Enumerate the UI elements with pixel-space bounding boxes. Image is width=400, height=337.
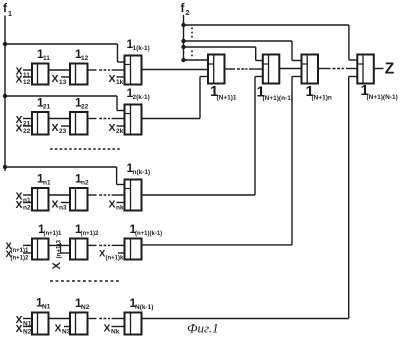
svg-text:2k: 2k xyxy=(116,128,124,135)
wire input X23 xyxy=(61,125,70,127)
svg-text:(N+1)1: (N+1)1 xyxy=(217,95,237,102)
label Xn2 xyxy=(16,199,31,212)
wire 111 to 112 xyxy=(49,69,71,71)
block 1(n+1)(k-1) xyxy=(125,239,142,260)
label block 121 xyxy=(37,96,51,111)
label XN3 xyxy=(55,323,71,336)
svg-text:(N+1)(n-1): (N+1)(n-1) xyxy=(263,95,294,102)
svg-text:2(k-1): 2(k-1) xyxy=(133,94,150,101)
svg-text:nk: nk xyxy=(116,204,124,211)
block 1n1 xyxy=(32,188,49,211)
wire input XNk xyxy=(112,326,125,328)
node f2 tap 1 xyxy=(181,23,185,27)
wire 1(n+1)2 to 1(n+1)(k-1) with ellipsis xyxy=(88,244,125,246)
node f1 row-2 junction xyxy=(3,94,7,98)
label X13 xyxy=(52,73,67,86)
wire f2 to U(N+1)1 xyxy=(184,59,209,61)
label block 11(k-1) xyxy=(127,37,150,52)
svg-text:X: X xyxy=(16,199,23,211)
svg-text:12: 12 xyxy=(23,79,31,86)
svg-text:13: 13 xyxy=(59,79,67,86)
svg-text:1k: 1k xyxy=(116,79,124,86)
wire input X2k xyxy=(117,125,125,127)
svg-text:Z: Z xyxy=(385,61,395,78)
wire input XN3 xyxy=(64,326,70,328)
svg-text:n3: n3 xyxy=(59,204,67,211)
svg-text:X: X xyxy=(52,122,59,134)
wire input X12 xyxy=(23,76,32,78)
label op-block 1(N+1)(n-1) xyxy=(257,84,294,103)
wire 121 to 122 xyxy=(49,118,71,120)
node f1 row-1 junction xyxy=(3,42,7,46)
wire f1 to cell 1n(k-1) xyxy=(5,167,125,185)
label X1k xyxy=(109,73,124,86)
label X(n+1)3 rotated xyxy=(51,240,63,270)
label X22 xyxy=(16,122,31,135)
label block 12(k-1) xyxy=(127,86,150,101)
wire row n+1 output to U(N+1)n xyxy=(142,77,302,245)
svg-text:N2: N2 xyxy=(23,328,32,335)
wire input X22 xyxy=(23,125,32,127)
node f2 tap 2 xyxy=(181,39,185,43)
label XN1 xyxy=(16,314,32,327)
wire f1 vertical bus xyxy=(4,16,6,172)
svg-text:n2: n2 xyxy=(81,180,89,187)
svg-text:21: 21 xyxy=(43,104,51,111)
label block 1(n+1)1 xyxy=(38,222,62,237)
svg-text:(n+1)k: (n+1)k xyxy=(106,255,125,261)
wire 1n2 to 1n(k-1) with ellipsis xyxy=(88,194,125,196)
svg-text:(N+1)(N-1): (N+1)(N-1) xyxy=(367,94,398,101)
svg-text:N(k-1): N(k-1) xyxy=(135,304,153,311)
block 121 xyxy=(32,112,49,135)
label block 1N2 xyxy=(75,296,90,311)
label block 1(n+1)2 xyxy=(75,222,99,237)
label block 1N1 xyxy=(36,296,51,311)
label block 1n(k-1) xyxy=(127,161,151,176)
wire input X11 xyxy=(23,69,32,71)
wire 1N1 to 1N2 xyxy=(49,318,71,320)
ellipsis rows n+1..N xyxy=(50,280,121,282)
wire 1n1 to 1n2 xyxy=(49,194,71,196)
wire input Xn3 xyxy=(61,202,70,204)
wire f2 ellipsis lower xyxy=(191,51,193,59)
label block 1(n+1)(k-1) xyxy=(130,222,163,237)
label XNk xyxy=(104,323,120,336)
node f2 tap 4 xyxy=(181,58,185,62)
wire input XN1 xyxy=(23,318,32,320)
op-block 1(N+1)(n-1) xyxy=(263,55,280,84)
svg-text:N1: N1 xyxy=(42,304,51,311)
wire input X(n+1)1 xyxy=(23,244,32,246)
label X(n+1)1 xyxy=(6,241,30,254)
svg-text:X: X xyxy=(16,73,23,85)
wire input X1k xyxy=(117,76,125,78)
svg-text:X: X xyxy=(52,199,59,211)
op-block 1(N+1)n xyxy=(302,55,319,84)
label Xn3 xyxy=(52,199,67,212)
svg-text:1(k-1): 1(k-1) xyxy=(133,45,150,52)
label Z xyxy=(385,61,395,78)
block 1N1 xyxy=(32,313,49,335)
wire row2 output to U(N+1)1 xyxy=(142,77,209,119)
block 11(k-1) xyxy=(125,56,142,85)
svg-text:(n+1)1: (n+1)1 xyxy=(44,231,63,237)
wire U(N+1)(n-1) to U(N+1)n xyxy=(279,68,301,70)
label block 122 xyxy=(75,96,89,111)
svg-text:n1: n1 xyxy=(43,180,51,187)
label X(n+1)k xyxy=(99,249,124,262)
svg-text:2: 2 xyxy=(186,10,190,17)
svg-text:23: 23 xyxy=(59,128,67,135)
wire input X(n+1)2 xyxy=(23,252,32,254)
wire 1(n+1)1 to 1(n+1)2 xyxy=(49,244,71,246)
wire row1 output to U(N+1)1 xyxy=(142,69,209,71)
label X21 xyxy=(16,114,31,127)
svg-text:11: 11 xyxy=(43,55,50,62)
svg-text:X: X xyxy=(109,199,116,211)
wire input X(n+1)k xyxy=(118,252,125,254)
wire input XN2 xyxy=(23,326,32,328)
wire input X21 xyxy=(23,118,32,120)
svg-text:22: 22 xyxy=(23,128,31,135)
svg-text:X: X xyxy=(55,323,62,335)
op-block 1(N+1)(N-1) xyxy=(357,55,374,84)
wire row n output to U(N+1)(n-1) xyxy=(142,77,263,196)
wire input Xn1 xyxy=(23,194,32,196)
svg-text:22: 22 xyxy=(81,104,89,111)
label Xn1 xyxy=(16,191,31,204)
label block 1n2 xyxy=(75,172,89,187)
node f2 tap 3 xyxy=(181,45,185,49)
block 1N2 xyxy=(70,313,88,335)
label X12 xyxy=(16,73,31,86)
svg-text:X: X xyxy=(104,323,111,335)
wire 122 to 12(k-1) with ellipsis xyxy=(88,118,125,120)
svg-text:(n+1)2: (n+1)2 xyxy=(11,256,30,262)
label block 111 xyxy=(37,47,50,62)
svg-text:(n+1)3: (n+1)3 xyxy=(56,240,63,259)
wire U(N+1)n to U(N+1)(N-1) with ellipsis xyxy=(318,68,357,70)
block 111 xyxy=(32,64,49,85)
wire f2 to U(N+1)n xyxy=(184,41,302,61)
label X23 xyxy=(52,122,67,135)
wire f1 to cell 11(k-1) xyxy=(5,44,125,62)
block 112 xyxy=(70,64,88,85)
ellipsis rows 2..n xyxy=(50,148,120,150)
label Xnk xyxy=(109,199,124,212)
svg-text:X: X xyxy=(16,122,23,134)
wire input X13 xyxy=(61,76,70,78)
svg-text:n2: n2 xyxy=(23,204,31,211)
svg-text:X: X xyxy=(51,262,63,270)
label X2k xyxy=(109,122,124,135)
op-block 1(N+1)1 xyxy=(208,55,225,84)
label block 112 xyxy=(75,47,89,62)
svg-text:n(k-1): n(k-1) xyxy=(133,169,151,176)
wire 1N2 to 1N(k-1) with ellipsis xyxy=(88,318,125,320)
wire f2 ellipsis upper xyxy=(191,28,193,39)
block 1n2 xyxy=(70,188,88,211)
label X(n+1)2 xyxy=(6,249,30,262)
wire input Xnk xyxy=(117,202,125,204)
svg-text:(n+1)(k-1): (n+1)(k-1) xyxy=(135,231,162,237)
block 122 xyxy=(70,112,88,135)
svg-text:Nk: Nk xyxy=(111,328,120,335)
block 12(k-1) xyxy=(125,105,142,135)
label op-block 1(N+1)(N-1) xyxy=(361,82,398,101)
svg-text:(n+1)2: (n+1)2 xyxy=(81,231,100,237)
block 1(n+1)2 xyxy=(70,239,88,260)
label block 1n1 xyxy=(37,172,51,187)
net f2 label xyxy=(181,1,190,17)
block 1(n+1)1 xyxy=(32,239,49,260)
wire f2 to U(N+1)(N-1) xyxy=(184,25,358,60)
label op-block 1(N+1)n xyxy=(306,83,332,102)
wire U(N+1)1 to U(N+1)(n-1) with ellipsis xyxy=(225,68,263,70)
label XN2 xyxy=(16,323,32,336)
wire 112 to 11(k-1) with ellipsis xyxy=(88,69,125,71)
svg-text:(N+1)n: (N+1)n xyxy=(312,95,332,102)
svg-text:X: X xyxy=(16,323,23,335)
svg-text:X: X xyxy=(109,73,116,85)
svg-text:N2: N2 xyxy=(81,304,90,311)
wire f1 to cell 12(k-1) xyxy=(5,96,125,111)
label X11 xyxy=(16,66,31,79)
label op-block 1(N+1)1 xyxy=(210,83,237,102)
label block 1N(k-1) xyxy=(130,296,154,311)
caption Fig.1 xyxy=(187,321,219,336)
wire f2 to U(N+1)(n-1) xyxy=(184,47,263,61)
wire row N output to U(N+1)(N-1) xyxy=(142,77,358,319)
wire f2 vertical bus xyxy=(183,15,185,60)
svg-text:11: 11 xyxy=(23,72,30,79)
wire input X(n+1)3 xyxy=(61,243,71,253)
block 1N(k-1) xyxy=(125,313,142,335)
block 1n(k-1) xyxy=(125,180,142,211)
node f1 row-n junction xyxy=(3,165,7,169)
svg-text:12: 12 xyxy=(81,55,89,62)
svg-text:1: 1 xyxy=(8,11,12,18)
svg-text:Фиг.1: Фиг.1 xyxy=(187,321,219,336)
wire input Xn2 xyxy=(23,202,32,204)
net f1 label xyxy=(3,1,12,18)
wire output Z xyxy=(374,68,384,70)
svg-text:X: X xyxy=(109,122,116,134)
svg-text:X: X xyxy=(52,73,59,85)
